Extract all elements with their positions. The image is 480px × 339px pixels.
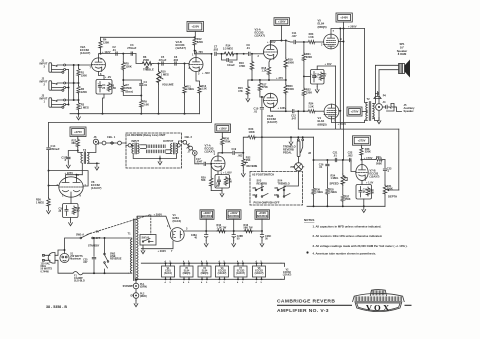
capacitor C21 [335,158,336,161]
jack J4 [376,104,383,111]
wire trem ground bus [363,199,365,206]
svg-text:SPEED: SPEED [330,181,339,185]
pilot lamp PL1 [135,279,137,283]
svg-text:(6BQ5): (6BQ5) [201,273,209,275]
resistor R40 [361,159,375,161]
svg-text:120K: 120K [126,64,132,68]
svg-text:56K 7W: 56K 7W [244,227,254,230]
resistor R26 [48,186,50,198]
svg-text:(6BQ5): (6BQ5) [318,122,327,126]
pilot lamp PL2 [135,289,137,293]
wire T1 secondary top [137,215,151,218]
svg-text:38 - 5358 - B: 38 - 5358 - B [46,305,67,309]
wire output cathode gnd [316,84,318,87]
svg-text:R40: R40 [376,156,381,159]
wire V2A cathode gnd [103,94,105,114]
cathode network V2A box [96,80,112,95]
rail B+ B [339,29,341,130]
resistor R8 [107,83,110,92]
resistor R29 [210,164,212,177]
svg-text:1.5K: 1.5K [308,104,314,108]
svg-text:+275V: +275V [74,130,82,134]
svg-text:C19: C19 [232,148,237,151]
svg-text:470K: 470K [224,139,230,143]
capacitor C4 [123,79,141,81]
wire plate line A [101,53,137,55]
capacitor C1 [98,86,101,88]
svg-text:DEPTH: DEPTH [388,195,397,199]
jack J6 [88,145,96,153]
svg-text:1. All capacitors in MFD unle: 1. All capacitors in MFD unless otherwis… [313,224,382,228]
svg-text:4. American tube number shown: 4. American tube number shown in parenth… [313,251,377,255]
svg-text:1 MEG: 1 MEG [81,105,89,109]
capacitor C9 [244,53,248,55]
source box +150V [255,210,270,220]
capacitor C28A [205,231,207,235]
resistor R12 [193,37,196,46]
svg-text:ON: ON [253,187,257,190]
plug P4 [375,92,378,96]
svg-text:1 MEG: 1 MEG [331,177,339,180]
capacitor C11 [286,41,293,43]
wire V5 screen [338,41,343,43]
svg-text:SOURCE: SOURCE [257,214,268,218]
potentiometer R41 DEPTH [383,185,386,196]
resistor R43 [244,229,254,232]
accessory outlet S1 [60,253,69,262]
capacitor C13 [312,76,315,77]
svg-text:+150V: +150V [278,20,286,24]
fuse F1 [55,260,73,273]
potentiometer R34 SPEED [342,160,344,174]
wire V1 plate [151,216,171,229]
svg-text:100K: 100K [288,60,294,64]
svg-text:560nuF: 560nuF [51,147,60,151]
heater box V6 [253,266,266,277]
resistor R24 [303,110,305,112]
resistor R11 [184,64,186,86]
svg-text:T1: T1 [128,232,132,236]
reverb springs [146,144,166,148]
svg-text:AMPLIFIER NO. V-3: AMPLIFIER NO. V-3 [277,308,329,314]
reverb unit box A1 [126,133,182,168]
mechanical link dashed [87,215,151,235]
svg-text:(12AX7): (12AX7) [205,150,215,154]
svg-text:A1 REVERB (Delay Line) UNIT: A1 REVERB (Delay Line) UNIT [127,133,166,137]
wire V6 grid loop [49,171,89,186]
transformer T1 [133,219,135,281]
svg-text:1 MEG: 1 MEG [186,88,194,91]
wire V7A plate [218,153,222,156]
wire B+ distribution [206,230,262,232]
svg-text:1 MEG: 1 MEG [315,191,323,194]
svg-text:1 MEG: 1 MEG [329,191,337,194]
heater box V4 [198,266,211,277]
supply box +150V a [187,22,204,32]
svg-text:.002: .002 [213,47,219,51]
wire V2A top [101,36,195,38]
svg-text:0.744W: 0.744W [41,270,50,273]
svg-text:1.5K: 1.5K [202,88,207,91]
svg-text:(6AC4): (6AC4) [164,272,172,275]
svg-text:(12AX7): (12AX7) [80,51,90,55]
svg-text:CBL. 1: CBL. 1 [107,135,116,139]
input jack J1 [49,63,52,72]
ac plug [48,253,55,264]
supply box +150V c [215,124,231,133]
supply box +275V a [70,127,86,137]
svg-text:10": 10" [400,45,405,49]
capacitor C15 [77,148,79,151]
switch SW1-B [140,235,156,246]
resistor R3 [77,102,80,111]
tube V7A [211,156,225,171]
svg-text:.01: .01 [319,166,323,169]
heater box V5 [180,266,193,277]
resistor R17 [258,82,261,92]
resistor R2 [77,86,80,95]
svg-text:1.2K: 1.2K [262,70,267,73]
svg-text:(12AX7): (12AX7) [283,274,292,277]
wire V6 grid [49,185,59,187]
VOX logo [370,290,386,296]
svg-text:Speaker: Speaker [404,109,414,113]
svg-text:680: 680 [76,210,81,213]
resistor R27 [77,137,79,139]
wire speaker leads [375,65,398,93]
capacitor C23 [384,160,386,168]
resistor R36 [312,188,315,196]
svg-text:+ 1.65V: + 1.65V [223,172,232,175]
junction reverb mix [261,136,263,138]
svg-text:.002: .002 [173,58,179,62]
capacitor C24 [359,191,362,192]
supply box +275V b [353,136,371,145]
resistor R42 [217,229,227,232]
plug P3 jack J7 [192,150,194,152]
capacitor C8 [222,54,227,60]
supply box +150V b [274,18,290,26]
svg-text:.01: .01 [246,46,250,50]
svg-text:250K: 250K [143,58,149,62]
svg-text:(12AX7): (12AX7) [218,272,227,275]
resistor R13 [196,72,200,85]
svg-text:500K: 500K [376,163,382,166]
svg-text:VOX: VOX [366,303,392,313]
svg-text:470K: 470K [262,86,268,89]
source box +290V [200,210,214,220]
svg-text:P4: P4 [383,94,387,98]
svg-text:(12AX7): (12AX7) [176,46,186,50]
resistor R23 [303,41,305,43]
heater box V7 [234,266,247,277]
svg-text:8 OHM: 8 OHM [398,52,407,56]
wire grid V2A [74,64,92,66]
pedal jack ground [290,137,292,139]
cathode network V7B box [361,181,363,185]
jack J5 auxiliary [382,103,395,111]
svg-text:1.2K 7W: 1.2K 7W [217,227,227,230]
svg-text:.01: .01 [112,48,116,52]
source box +240V [227,210,242,220]
svg-text:(6BQ5): (6BQ5) [183,273,191,275]
ground bus input stage [70,113,200,115]
reverb unit internal gnd [133,154,160,159]
resistor R21 [303,42,305,53]
svg-text:270nuF: 270nuF [127,46,136,50]
svg-text:1.5K: 1.5K [308,35,314,39]
svg-text:VOLUME: VOLUME [162,83,174,87]
wire V1 cathode [184,230,206,232]
svg-text:TREBLE: TREBLE [143,68,154,72]
svg-text:T3: T3 [83,148,87,152]
svg-text:OUTPUT: OUTPUT [163,140,174,143]
wire bass bottom [123,93,141,96]
wire T2 secondary bottom [373,118,379,121]
tube V4 [324,104,339,119]
wire NFB line [298,111,399,129]
svg-text:ON: ON [275,187,279,190]
tube V2A [92,58,106,72]
capacitor C2 [116,52,117,55]
pedal jack J8 [297,139,299,141]
supply box +240V [336,13,352,22]
wire V5 plate 260V [331,29,365,35]
resistor R19 [285,41,287,59]
resistor R38 [360,147,363,156]
ground input stage [77,114,81,120]
svg-text:47K: 47K [238,89,243,93]
wire V3B plate out [271,108,286,112]
wire V6 top node [48,171,50,186]
svg-text:(6BQ5): (6BQ5) [318,25,327,29]
svg-text:SW1-A: SW1-A [76,234,84,237]
tube V5 [324,34,339,49]
svg-text:+ .56V: + .56V [202,71,210,75]
wire V1 heater [141,241,173,249]
resistor R4 [100,37,102,40]
svg-text:220K: 220K [306,90,312,94]
svg-text:+275V: +275V [358,139,366,143]
resistor R33 [243,137,247,153]
resistor R9 [140,96,142,100]
resistor R14 [217,53,221,55]
potentiometer R7 BASS [122,84,125,93]
wire heater bottom [136,278,281,280]
svg-text:CBL 2: CBL 2 [185,135,193,139]
svg-text:+ 16V: + 16V [325,62,332,66]
capacitor C28C [261,231,263,235]
wire V6 plates [66,175,83,178]
ground J4 [378,110,380,117]
svg-text:.047: .047 [291,34,297,38]
svg-text:(Bass): (Bass) [126,90,134,93]
tube V3B [264,93,278,107]
input jack J2 [49,81,52,90]
capacitor C14 [48,123,50,147]
tube V7B [356,165,368,181]
svg-text:120K: 120K [103,40,109,44]
svg-text:P6: P6 [291,165,295,169]
svg-text:STANDBY: STANDBY [123,285,135,288]
potentiometer R32 REVERB [242,152,244,154]
svg-text:470K: 470K [239,64,245,68]
svg-text:3. All voltage readings made: 3. All voltage readings made with 20,000… [313,244,408,248]
svg-text:100K: 100K [288,87,294,91]
wire V3A plate [270,41,272,45]
wire V3A grid [252,53,264,55]
capacitor C22 [350,158,351,161]
wire T2 secondary top [373,94,376,104]
wire V2A plate node [99,54,101,58]
svg-text:250K: 250K [126,86,132,90]
svg-text:+ 1.9V: + 1.9V [366,182,374,185]
wire trem line [314,159,352,161]
wire V2A cathode [99,72,105,80]
wire screen rail link [335,66,337,129]
svg-text:220K: 220K [306,55,312,59]
switch SW2 LINE REVERSE [104,253,106,255]
svg-text:.002: .002 [238,155,243,158]
svg-text:.002: .002 [347,153,353,157]
svg-text:T2: T2 [367,97,371,101]
resistor R1 [78,65,80,68]
resistor R20 [284,84,287,95]
svg-text:REVERB: REVERB [247,164,258,168]
svg-text:.0047: .0047 [196,161,203,164]
svg-text:+ 136V: + 136V [278,106,287,110]
resistor R28 [72,206,75,215]
wire treble line [136,54,141,64]
svg-text:(12AX7): (12AX7) [267,120,277,124]
svg-text:250K: 250K [387,188,393,191]
resistor R25 [319,72,322,81]
svg-text:A2 FOOTSWITCH: A2 FOOTSWITCH [252,173,274,177]
svg-text:250K: 250K [345,198,351,201]
tube V6 [59,177,83,197]
wire V2B grid stub [188,64,190,65]
svg-text:INPUT: INPUT [132,140,140,143]
svg-text:.047: .047 [291,116,297,120]
resistor R22 [303,75,305,77]
potentiometer R6 TREBLE [141,62,153,65]
tube V3A [264,45,278,59]
svg-text:(RED): (RED) [140,295,147,298]
svg-text:3.3K: 3.3K [369,192,374,194]
svg-text:TREMELO: TREMELO [278,182,290,185]
capacitor C3 [131,52,132,55]
resistor R31 [224,177,227,186]
svg-text:Maximum: Maximum [70,259,81,261]
heater box V1 [162,266,175,277]
svg-text:.047: .047 [83,261,88,264]
svg-text:+270V: +270V [351,110,359,114]
resistor R15 [247,80,249,86]
svg-text:(12AU7): (12AU7) [255,272,264,275]
resistor R37 [342,186,344,195]
cathode network V6 box [70,197,72,203]
capacitor C7 [215,52,216,55]
capacitor C28B [233,231,235,235]
wire input bus [66,64,74,66]
svg-text:1.5K: 1.5K [111,87,116,90]
svg-text:CAMBRIDGE REVERB: CAMBRIDGE REVERB [277,299,335,305]
svg-text:100K: 100K [249,130,255,134]
capacitor C18 [217,180,220,181]
svg-text:(12AU7): (12AU7) [91,186,102,190]
svg-text:1 MEG: 1 MEG [36,200,44,204]
wire heater top [141,262,281,264]
switch SW1-A [80,237,82,239]
title rule [277,304,412,306]
svg-text:+ .9V: + .9V [105,75,112,79]
svg-text:220K: 220K [365,151,371,154]
svg-text:(12AX7): (12AX7) [255,34,265,38]
svg-text:+ 260V: + 260V [348,24,357,28]
ground R15 [246,96,250,102]
svg-text:56K: 56K [201,179,206,182]
ground V6 cathode [70,218,72,220]
svg-text:1 MEG: 1 MEG [161,72,169,76]
ground V7A [211,190,222,192]
svg-text:NOTES: NOTES [304,218,314,222]
resistor R39 [366,187,369,196]
tube V1 [170,228,184,242]
svg-text:(GRN): (GRN) [140,286,147,289]
resistor R5 [122,54,124,62]
resistor R30 [221,137,224,146]
ground T3 [88,162,97,164]
svg-text:.01: .01 [254,109,258,113]
svg-text:+ 37V: + 37V [276,76,283,80]
tube V2B [189,58,203,72]
svg-text:+150V: +150V [191,25,199,29]
svg-text:SOURCE: SOURCE [201,214,212,218]
svg-text:120K: 120K [81,90,87,94]
svg-text:PUSH-ON/PUSH-OFF: PUSH-ON/PUSH-OFF [254,201,280,205]
svg-text:SLO-BLO: SLO-BLO [74,280,85,283]
junction node A [243,53,245,55]
note 4 [306,251,308,253]
svg-text:(12AX7): (12AX7) [370,174,380,178]
wire V4 plate 260V [332,119,365,123]
svg-text:Speaker: Speaker [397,49,407,53]
ground trem bus [362,206,366,212]
potentiometer R10 VOLUME [158,64,160,71]
capacitor C12 [293,110,294,113]
svg-text:+ 290V: + 290V [158,249,167,253]
svg-text:680: 680 [72,142,77,145]
capacitor C19 [222,152,232,154]
capacitor C25 [93,238,95,256]
svg-text:3.3 MEG: 3.3 MEG [223,46,233,50]
svg-text:SP1: SP1 [399,42,405,46]
capacitor C10 [261,96,263,98]
svg-text:10nuF: 10nuF [227,63,235,67]
wire V2B plate [195,51,196,58]
svg-text:120K: 120K [81,73,87,77]
svg-text:2. All resistors 1/2w 10% unl: 2. All resistors 1/2w 10% unless otherwi… [313,234,383,238]
svg-text:.01: .01 [144,83,148,87]
capacitor C6 [175,62,176,65]
footswitch box A2 [250,172,303,206]
rail B+ A [343,29,345,161]
svg-text:(6AC4): (6AC4) [173,219,182,223]
capacitor C5 [162,62,163,65]
svg-text:(12AX7): (12AX7) [236,272,245,275]
capacitor C17 [204,162,205,165]
svg-text:REVERSE: REVERSE [110,258,122,261]
